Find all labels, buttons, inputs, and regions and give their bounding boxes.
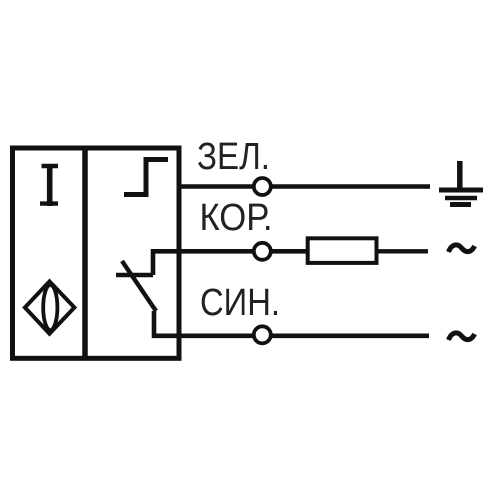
svg-text:ЗЕЛ.: ЗЕЛ.: [197, 136, 270, 178]
svg-text:КОР.: КОР.: [200, 197, 273, 239]
svg-text:СИН.: СИН.: [200, 282, 280, 324]
